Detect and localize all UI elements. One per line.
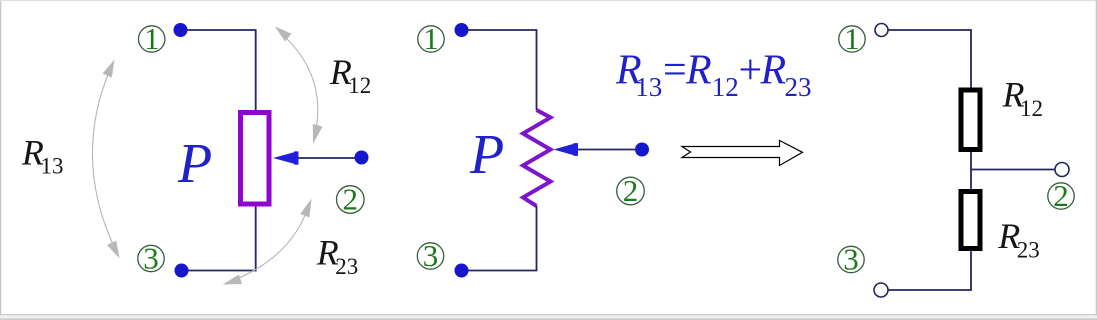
label R23 (left) xyxy=(316,233,358,279)
wiper wire (left) xyxy=(297,157,356,159)
svg-text:2: 2 xyxy=(623,173,639,208)
R13 measurement arc (gray, double arrow) xyxy=(92,60,119,259)
wiper arrowhead (left) xyxy=(273,151,299,164)
node 2 (left) circled label xyxy=(337,182,365,217)
svg-text:3: 3 xyxy=(843,242,859,277)
formula R13 = R12 + R23 xyxy=(615,48,812,102)
svg-text:2: 2 xyxy=(343,182,359,217)
label R12 (right) xyxy=(1002,75,1044,121)
svg-text:+: + xyxy=(739,48,763,94)
node 1 (right) circled label xyxy=(839,21,865,56)
terminal dot 3 (left) xyxy=(175,264,189,278)
svg-text:2: 2 xyxy=(1053,178,1069,213)
label R23 (right) xyxy=(997,216,1039,262)
svg-text:12: 12 xyxy=(1020,96,1043,121)
open terminal circle 1 (right) xyxy=(875,24,888,37)
wire from R23 bottom to terminal 3 xyxy=(888,251,971,290)
resistor R12 body xyxy=(961,90,980,150)
svg-text:P: P xyxy=(177,133,212,195)
svg-text:12: 12 xyxy=(712,72,739,102)
potentiometer P body (rectangle) xyxy=(241,113,270,205)
svg-text:=: = xyxy=(663,48,687,94)
wire from resistor bottom to terminal 3 (middle) xyxy=(467,206,537,271)
frame border top xyxy=(0,0,1097,1)
wire from middle node to terminal 2 xyxy=(971,169,1055,171)
svg-text:1: 1 xyxy=(144,21,160,56)
svg-text:1: 1 xyxy=(844,21,860,56)
resistor R23 body xyxy=(961,192,980,249)
terminal dot 1 (middle) xyxy=(455,23,469,37)
open terminal circle 2 (right) xyxy=(1055,163,1069,177)
terminal dot 1 (left) xyxy=(174,23,188,37)
node 1 (left) circled label xyxy=(139,21,165,56)
R23 measurement arc (gray, double arrow) xyxy=(223,199,312,285)
big hollow implication arrow xyxy=(682,141,803,166)
frame border right xyxy=(1096,0,1097,320)
svg-text:13: 13 xyxy=(41,154,64,179)
label R13 xyxy=(21,132,64,178)
wire from terminal 1 to resistor top (middle) xyxy=(467,30,537,110)
svg-text:23: 23 xyxy=(785,72,812,102)
svg-text:R: R xyxy=(685,48,712,94)
terminal dot 3 (middle) xyxy=(455,264,469,278)
R12 measurement arc (gray, double arrow) xyxy=(275,27,323,145)
node 2 (middle) circled label xyxy=(617,173,645,208)
label R12 (left) xyxy=(329,52,371,98)
wiper wire (middle) xyxy=(576,149,637,151)
wire between R12 and R23 xyxy=(970,152,972,189)
svg-text:23: 23 xyxy=(1017,237,1040,262)
wire from terminal 1 to R12 top xyxy=(888,30,971,88)
node 3 (left) circled label xyxy=(138,241,164,276)
wiper terminal dot 2 (middle) xyxy=(635,143,649,157)
wire from terminal 1 to potentiometer top xyxy=(186,30,256,110)
wiper arrowhead (middle) xyxy=(554,143,579,156)
potentiometer P zigzag resistor xyxy=(523,110,551,206)
svg-text:1: 1 xyxy=(423,21,439,56)
svg-text:3: 3 xyxy=(423,238,439,273)
wire from potentiometer bottom to terminal 3 xyxy=(187,207,256,271)
svg-text:12: 12 xyxy=(348,73,371,98)
svg-text:R: R xyxy=(760,48,787,94)
wiper terminal dot 2 (left) xyxy=(355,151,369,165)
svg-text:23: 23 xyxy=(335,254,358,279)
node 1 (middle) circled label xyxy=(418,21,444,56)
frame border left xyxy=(0,0,1,320)
open terminal circle 3 (right) xyxy=(874,283,888,297)
node 3 (middle) circled label xyxy=(417,238,443,273)
svg-text:3: 3 xyxy=(143,241,159,276)
svg-text:P: P xyxy=(469,124,504,186)
frame border bottom band xyxy=(0,314,1097,315)
node 2 (right) circled label xyxy=(1048,178,1074,213)
svg-text:13: 13 xyxy=(635,72,662,102)
node 3 (right) circled label xyxy=(838,242,864,277)
